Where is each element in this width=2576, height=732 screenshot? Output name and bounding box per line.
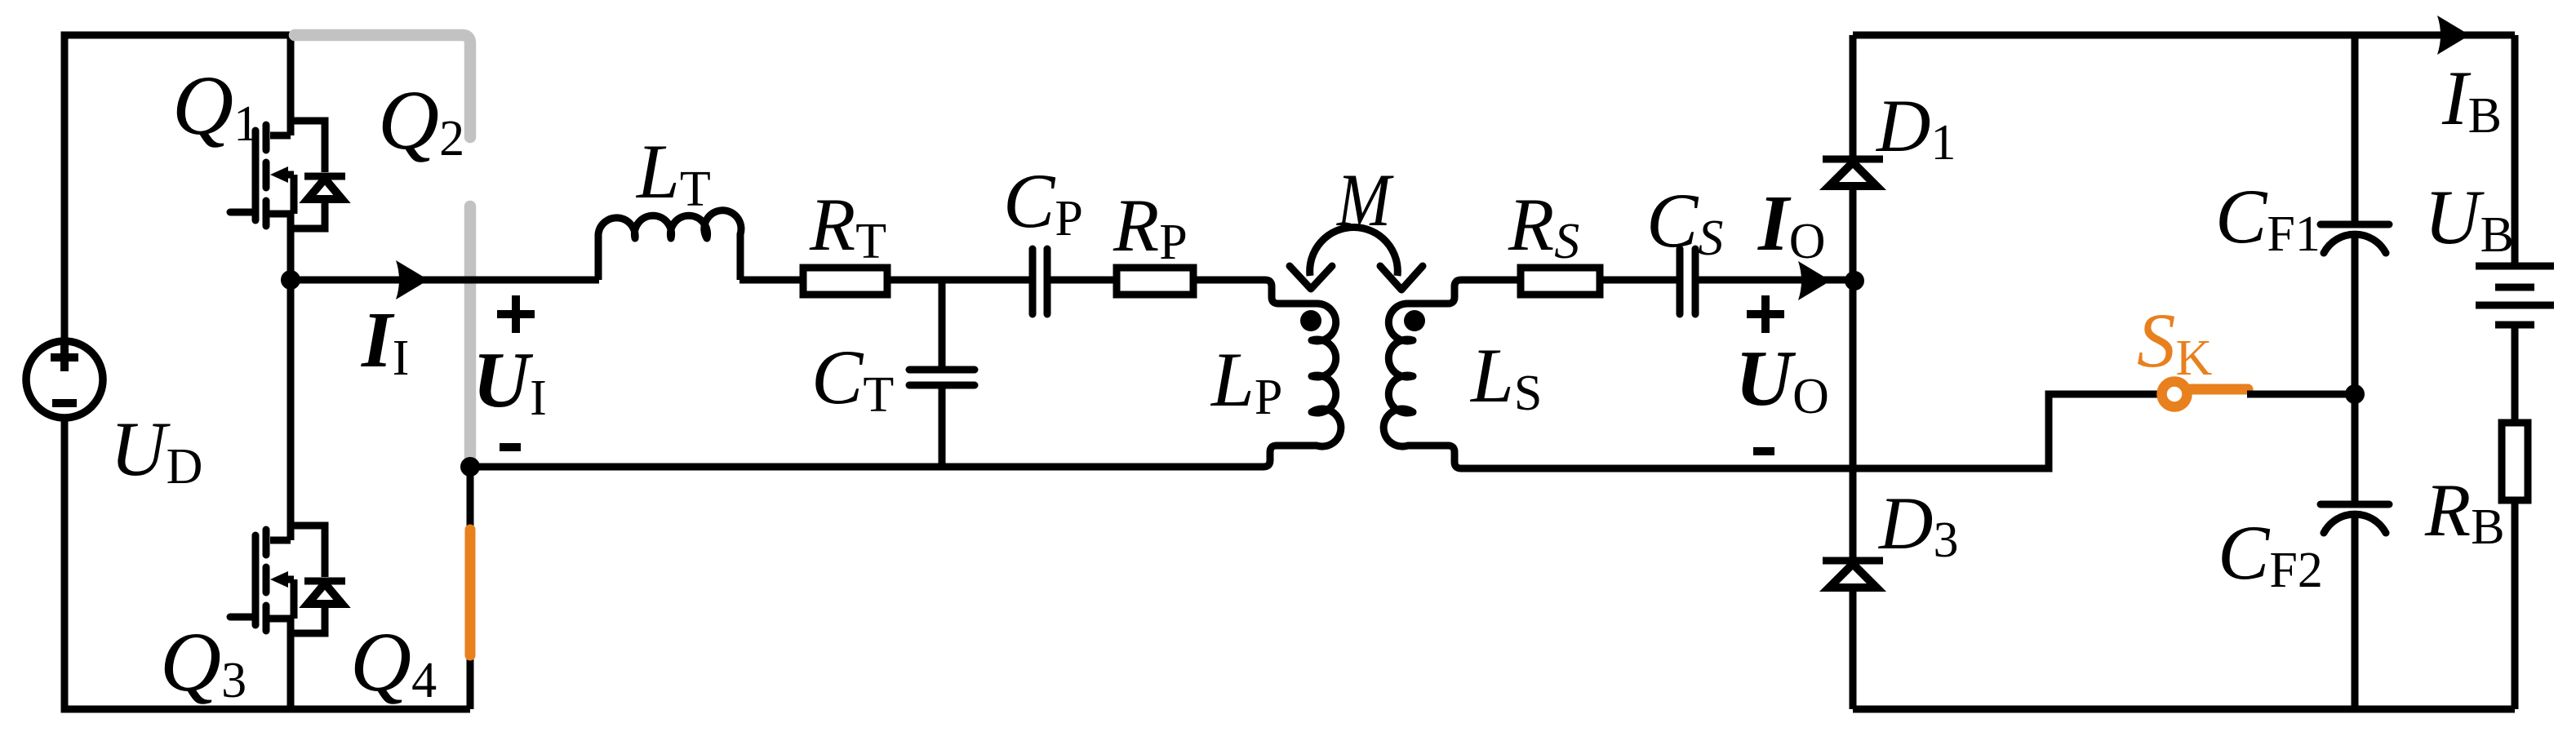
wire gray leg Q2 top (295, 35, 470, 137)
wire C_F2 leg lower (2352, 517, 2359, 709)
label U_O plus (1747, 295, 1784, 333)
svg-text:Q3: Q3 (160, 615, 246, 709)
svg-text:RB: RB (2424, 468, 2505, 555)
capacitor C_F1 curved plate (2324, 234, 2386, 253)
voltage source plus sign (51, 344, 78, 371)
wire C_T branch lower (939, 385, 946, 467)
wire R_T to C_P with C_T tap (887, 277, 1033, 284)
mosfet body line (281, 175, 294, 214)
svg-text:IO: IO (1757, 180, 1826, 269)
node L_P polarity dot (1300, 310, 1321, 331)
mosfet body diode branch (291, 121, 325, 228)
svg-text:II: II (361, 296, 409, 386)
wire left leg bottom + bottom rail (64, 420, 470, 709)
svg-text:RS: RS (1508, 183, 1579, 269)
wire R_S to C_S (1600, 277, 1680, 284)
svg-text:D3: D3 (1877, 481, 1958, 568)
svg-text:IB: IB (2441, 55, 2502, 144)
inductor L_T right riser (737, 234, 744, 280)
mosfet Q3 (230, 526, 345, 633)
wire output top rail with I_B arrow (1853, 32, 2515, 39)
svg-text:RT: RT (809, 183, 886, 269)
mutual coupling M arc (1310, 228, 1398, 276)
resistor R_B (2502, 423, 2528, 500)
node I_O junction (1845, 271, 1864, 291)
voltage source U_D circle (26, 341, 103, 418)
svg-text:UD: UD (110, 406, 202, 495)
svg-text:Q4: Q4 (350, 615, 437, 709)
arrow I_B head (2437, 16, 2470, 55)
battery U_B short plates (2495, 287, 2534, 325)
wire rectifier leg bottom (1850, 588, 1857, 709)
wire C_F1 leg lower (2352, 237, 2359, 394)
switch S_K lever (2191, 384, 2248, 395)
diode D1 cathode bar (1823, 156, 1883, 163)
wire L_S top step to R_S (1407, 280, 1521, 304)
wire C_F2 leg upper (2352, 394, 2359, 504)
label U_I minus (500, 443, 521, 451)
inductor L_P primary coil (1312, 304, 1341, 446)
svg-text:Q1: Q1 (172, 59, 259, 153)
node L_S polarity dot (1404, 310, 1425, 331)
wire output bottom rail (1853, 706, 2515, 713)
node filter midpoint (2345, 384, 2365, 404)
inductor L_T turns (598, 211, 741, 238)
svg-text:LS: LS (1469, 332, 1542, 421)
svg-text:SK: SK (2137, 297, 2213, 386)
resistor R_S (1521, 268, 1600, 295)
resistor R_T (803, 268, 887, 295)
voltage source minus sign (52, 399, 77, 407)
capacitor C_F2 flat plate (2321, 501, 2389, 508)
svg-text:UB: UB (2424, 174, 2514, 263)
mosfet drain connect (270, 132, 291, 140)
svg-text:M: M (1335, 158, 1393, 242)
arrow I_I head (396, 260, 429, 299)
wire R_P to L_P step (1193, 280, 1317, 304)
svg-text:LT: LT (635, 128, 711, 217)
mosfet channel dashes (263, 125, 270, 226)
label U_I plus (497, 295, 535, 333)
diode D3 triangle (1829, 564, 1876, 588)
wire bridge leg A top (287, 35, 295, 135)
resistor R_P (1117, 268, 1193, 295)
M arc left arrowhead (1290, 266, 1332, 289)
wire main rail from bridge to L_T with I_I arrow (291, 277, 599, 284)
wire gray leg Q2 bottom (464, 206, 477, 457)
wire secondary bottom rail to switch riser (1407, 394, 2159, 468)
mosfet body diode triangle (308, 179, 342, 199)
mosfet body arrow (270, 166, 288, 183)
wire R_B to bottom rail (2512, 500, 2519, 709)
diode D3 cathode bar (1823, 557, 1883, 565)
wire rectifier leg top (1850, 35, 1857, 159)
capacitor C_T plates (909, 370, 975, 385)
wire bridge leg A middle (287, 214, 295, 540)
svg-text:UI: UI (473, 336, 547, 426)
wire rectifier leg middle (1850, 186, 1857, 561)
svg-text:CF2: CF2 (2218, 509, 2323, 598)
svg-text:D1: D1 (1875, 84, 1956, 171)
node U_I minus (460, 457, 480, 477)
mosfet body diode cathode bar (304, 173, 345, 180)
svg-text:LP: LP (1210, 336, 1282, 425)
switch S_K contact circle (2162, 382, 2187, 407)
capacitor C_F2 curved plate (2324, 514, 2386, 533)
mosfet Q1 (230, 121, 345, 228)
mosfet source connect (266, 211, 294, 218)
wire battery leg top (2512, 35, 2519, 266)
inductor L_T (595, 234, 602, 280)
wire L_T to R_T (739, 277, 803, 284)
diode D1 triangle (1829, 162, 1876, 186)
svg-text:RP: RP (1113, 184, 1188, 270)
wire C_P to R_P (1047, 277, 1117, 284)
wire C_F1 leg upper (2352, 35, 2359, 224)
mosfet gate bar (252, 131, 260, 220)
svg-text:CP: CP (1003, 157, 1083, 246)
svg-text:CF1: CF1 (2215, 173, 2321, 262)
wire bridge leg A bottom (287, 619, 295, 709)
battery U_B long plates (2476, 266, 2554, 305)
mosfet gate lead (230, 209, 255, 216)
wire left leg top + top rail to bridge leg (64, 35, 295, 420)
inductor L_S secondary coil (1383, 304, 1413, 446)
svg-text:Q2: Q2 (378, 73, 464, 167)
wire tank minus rail (470, 446, 1317, 467)
capacitor C_S plates (1680, 249, 1695, 314)
wire C_T branch upper (939, 280, 946, 370)
wire C_S to rectifier with I_O arrow (1695, 277, 1854, 284)
svg-text:UO: UO (1735, 335, 1829, 424)
M arc right arrowhead (1380, 266, 1423, 290)
svg-text:CT: CT (811, 334, 894, 423)
wire Q4 orange segment (465, 530, 476, 655)
wire Q4 leg (467, 467, 474, 709)
wire switch to filter midpoint (2247, 391, 2355, 398)
node bridge A midpoint (281, 270, 300, 290)
svg-text:CS: CS (1646, 177, 1723, 266)
capacitor C_F1 flat plate (2321, 221, 2389, 228)
capacitor C_P plates (1033, 249, 1047, 314)
wire battery to R_B (2512, 325, 2519, 423)
arrow I_O head (1798, 261, 1831, 300)
label U_O minus (1753, 447, 1774, 455)
